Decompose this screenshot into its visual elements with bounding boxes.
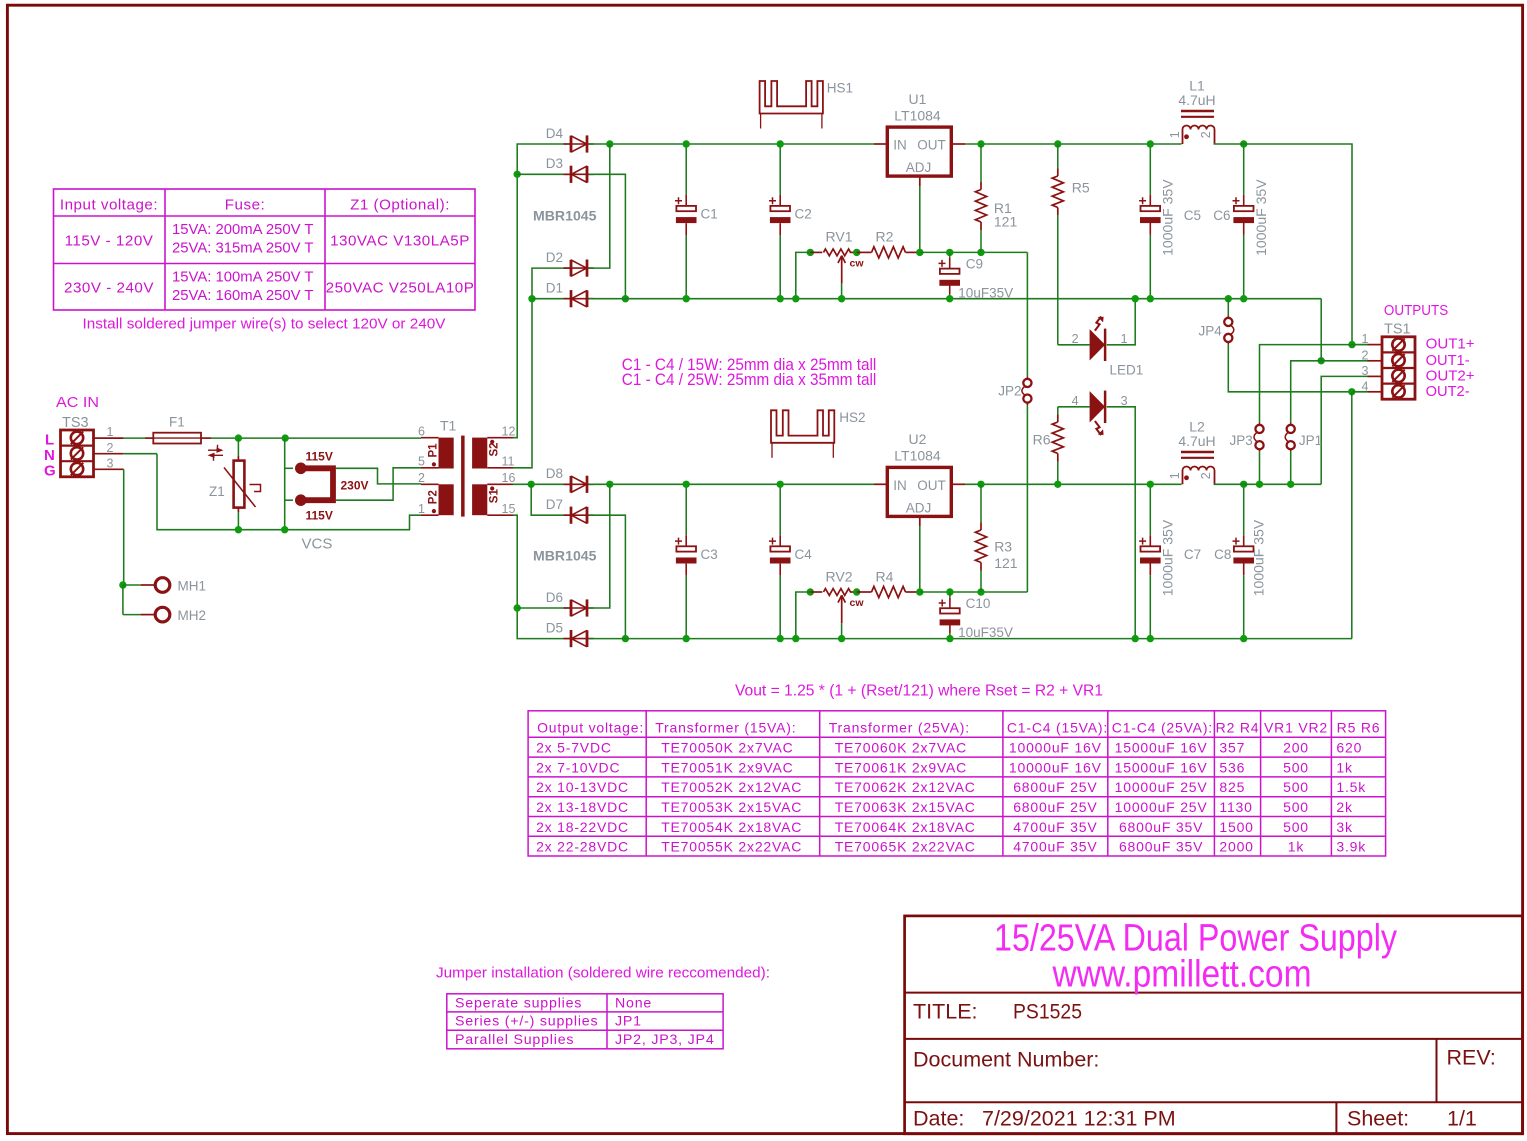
capacitor C10 xyxy=(940,608,960,613)
wire C7 bottom xyxy=(1149,575,1151,638)
junction C2 top rail xyxy=(777,140,784,147)
jumper JP1 xyxy=(1290,422,1292,425)
svg-text:VCS: VCS xyxy=(302,536,333,553)
svg-text:www.pmillett.com: www.pmillett.com xyxy=(1052,954,1312,996)
svg-text:3: 3 xyxy=(1121,394,1128,408)
capacitor C4 xyxy=(770,546,790,551)
svg-text:TE70065K 2x22VAC: TE70065K 2x22VAC xyxy=(835,839,976,855)
svg-text:D7: D7 xyxy=(546,497,563,512)
svg-text:Document Number:: Document Number: xyxy=(913,1048,1099,1072)
svg-text:2: 2 xyxy=(1199,131,1213,138)
wire R5 to LED1 xyxy=(1057,215,1059,345)
wire VCS column xyxy=(284,438,286,530)
svg-text:Transformer (15VA):: Transformer (15VA): xyxy=(655,719,796,735)
svg-text:OUT1+: OUT1+ xyxy=(1426,337,1475,353)
svg-text:C9: C9 xyxy=(966,256,983,271)
svg-text:G: G xyxy=(44,463,56,480)
junction wiper rail lower xyxy=(838,635,845,642)
wire to D7 xyxy=(531,484,570,515)
svg-text:10000uF 16V: 10000uF 16V xyxy=(1009,759,1102,775)
capacitor C1 xyxy=(676,206,696,211)
svg-text:S1: S1 xyxy=(489,489,501,504)
junction MH1 xyxy=(119,581,126,588)
wire U1 ADJ down xyxy=(919,186,921,252)
svg-text:Vout = 1.25 * (1 + (Rset/121): Vout = 1.25 * (1 + (Rset/121) where Rset… xyxy=(735,683,1103,700)
wire C3 bottom xyxy=(685,576,687,639)
svg-text:C1-C4 (25VA):: C1-C4 (25VA): xyxy=(1112,719,1213,735)
svg-text:2: 2 xyxy=(418,471,425,485)
svg-text:1: 1 xyxy=(1168,131,1182,138)
RV2 wiper arrow xyxy=(838,595,845,623)
LED LED2 xyxy=(1090,391,1106,422)
wire JP2 bottom to lower ADJ node xyxy=(1026,405,1028,592)
svg-text:5: 5 xyxy=(418,455,425,469)
wire N right xyxy=(124,453,157,455)
svg-text:JP2: JP2 xyxy=(998,383,1021,398)
mounting hole MH1 xyxy=(123,584,141,586)
svg-text:4700uF 35V: 4700uF 35V xyxy=(1013,839,1097,855)
svg-text:TE70055K 2x22VAC: TE70055K 2x22VAC xyxy=(661,839,802,855)
svg-text:12: 12 xyxy=(502,425,516,439)
wire JP4 bottom to OUT2- xyxy=(1228,344,1352,391)
svg-text:121: 121 xyxy=(994,555,1018,571)
regulator U1 LT1084 xyxy=(887,127,951,176)
wire LED1 cathode to rail xyxy=(1107,299,1135,345)
svg-text:LED1: LED1 xyxy=(1110,363,1144,378)
svg-text:15000uF 16V: 15000uF 16V xyxy=(1115,740,1208,756)
diode D2 xyxy=(564,267,594,269)
wire LED2 cathode to lower rail xyxy=(1107,407,1135,639)
wire fuse to T1 pin 6 xyxy=(211,437,421,439)
svg-text:500: 500 xyxy=(1283,759,1309,775)
svg-text:TE70061K 2x9VAC: TE70061K 2x9VAC xyxy=(835,759,967,775)
info table: input voltage / fuse / Z1 xyxy=(54,189,476,310)
wire C2 top xyxy=(779,144,781,195)
junction C1 bottom rail xyxy=(683,295,690,302)
junction LED1 rail xyxy=(1132,295,1139,302)
svg-text:JP2, JP3, JP4: JP2, JP3, JP4 xyxy=(615,1032,715,1048)
svg-text:230V: 230V xyxy=(341,479,369,493)
svg-text:OUT: OUT xyxy=(917,138,946,153)
svg-text:11: 11 xyxy=(502,455,515,469)
junction C2 bottom rail xyxy=(777,295,784,302)
capacitor C9 xyxy=(949,252,951,258)
svg-text:15VA: 200mA 250V T: 15VA: 200mA 250V T xyxy=(172,221,314,238)
wire C4 bottom xyxy=(779,576,781,639)
svg-text:cw: cw xyxy=(850,258,865,270)
wire to D6 xyxy=(517,607,570,609)
junction R1 bottom xyxy=(977,249,984,256)
wire C1 top xyxy=(685,144,687,195)
svg-text:1000uF 35V: 1000uF 35V xyxy=(1254,179,1269,256)
svg-text:R4: R4 xyxy=(876,569,894,585)
svg-text:1k: 1k xyxy=(1336,759,1353,775)
svg-text:10000uF 25V: 10000uF 25V xyxy=(1115,799,1208,815)
diode D1 xyxy=(564,298,594,300)
wire D7 right down to D5 xyxy=(589,515,626,638)
junction C6 top xyxy=(1240,140,1247,147)
capacitor C7 xyxy=(1141,546,1161,551)
wire D3 right down to D1 xyxy=(589,174,626,298)
svg-text:P2: P2 xyxy=(428,490,440,504)
svg-text:536: 536 xyxy=(1219,759,1245,775)
wire OUT1- to JP1 top xyxy=(1291,361,1322,423)
heatsink HS1 xyxy=(760,81,823,114)
svg-text:2x 5-7VDC: 2x 5-7VDC xyxy=(536,740,612,756)
jumper JP4 xyxy=(1227,315,1229,318)
svg-text:C4: C4 xyxy=(795,547,813,562)
svg-text:3k: 3k xyxy=(1336,819,1353,835)
svg-text:LT1084: LT1084 xyxy=(894,107,941,123)
svg-text:D5: D5 xyxy=(546,620,563,635)
svg-text:C1: C1 xyxy=(701,207,718,222)
svg-text:4.7uH: 4.7uH xyxy=(1178,92,1215,108)
svg-text:Install soldered jumper wire(s: Install soldered jumper wire(s) to selec… xyxy=(83,316,447,333)
junction RV1 return xyxy=(792,295,799,302)
junction D5/D7 xyxy=(622,635,629,642)
svg-text:6: 6 xyxy=(418,425,425,439)
junction Z1 top xyxy=(235,434,242,441)
wire RV2 wiper to rail xyxy=(841,623,843,638)
svg-text:10000uF 16V: 10000uF 16V xyxy=(1009,740,1102,756)
svg-text:TE70060K 2x7VAC: TE70060K 2x7VAC xyxy=(835,740,967,756)
svg-text:825: 825 xyxy=(1219,779,1245,795)
svg-text:Transformer (25VA):: Transformer (25VA): xyxy=(829,719,970,735)
RV1 wiper arrow xyxy=(838,256,845,284)
svg-text:TE70062K 2x12VAC: TE70062K 2x12VAC xyxy=(835,779,976,795)
svg-text:JP4: JP4 xyxy=(1199,323,1223,338)
wire OUT2+ down to L2 rail xyxy=(1321,376,1367,484)
svg-text:C6: C6 xyxy=(1213,208,1230,223)
svg-text:C7: C7 xyxy=(1184,547,1201,562)
wire L2 out rail xyxy=(1214,483,1322,485)
svg-text:7/29/2021 12:31 PM: 7/29/2021 12:31 PM xyxy=(982,1107,1176,1131)
wire D6 right up to D8 xyxy=(589,484,610,608)
wire D2 right up to D4 xyxy=(589,144,610,268)
wire JP3 bottom xyxy=(1259,452,1261,485)
capacitor C6 xyxy=(1234,206,1254,211)
svg-text:1/1: 1/1 xyxy=(1447,1107,1477,1131)
svg-text:N: N xyxy=(44,447,55,464)
svg-text:230V - 240V: 230V - 240V xyxy=(64,280,154,297)
wire RV1 wiper to rail xyxy=(841,284,843,299)
svg-text:Parallel Supplies: Parallel Supplies xyxy=(455,1032,574,1048)
junction RV2 right xyxy=(853,588,860,595)
svg-text:Sheet:: Sheet: xyxy=(1347,1107,1409,1131)
svg-text:OUT2+: OUT2+ xyxy=(1426,368,1475,384)
svg-text:1: 1 xyxy=(107,425,114,439)
junction C3 top rail xyxy=(683,481,690,488)
svg-text:AC IN: AC IN xyxy=(56,394,99,411)
wire C6 top xyxy=(1243,144,1245,195)
svg-text:200: 200 xyxy=(1283,740,1309,756)
junction C5 bottom xyxy=(1147,295,1154,302)
svg-text:2: 2 xyxy=(107,441,114,455)
svg-text:MBR1045: MBR1045 xyxy=(533,208,597,224)
svg-text:3.9k: 3.9k xyxy=(1336,839,1366,855)
junction C8 bottom xyxy=(1240,635,1247,642)
svg-text:1500: 1500 xyxy=(1219,819,1253,835)
wire to D1 xyxy=(532,298,570,300)
lower ground rail xyxy=(589,638,1352,640)
junction C10 top xyxy=(946,588,953,595)
svg-text:MH1: MH1 xyxy=(178,579,207,594)
varistor Z1 xyxy=(237,438,239,456)
svg-text:500: 500 xyxy=(1283,779,1309,795)
svg-text:REV:: REV: xyxy=(1447,1046,1496,1070)
svg-text:1.5k: 1.5k xyxy=(1336,779,1366,795)
svg-text:IN: IN xyxy=(893,478,907,493)
svg-text:2: 2 xyxy=(1199,472,1213,479)
wire RV1 left to rail xyxy=(796,252,811,298)
svg-text:RV2: RV2 xyxy=(826,569,853,585)
svg-text:D3: D3 xyxy=(546,156,563,171)
svg-text:RV1: RV1 xyxy=(826,228,853,244)
wire D8 to U2 IN xyxy=(589,483,874,485)
svg-text:4700uF 35V: 4700uF 35V xyxy=(1013,819,1097,835)
svg-text:R2: R2 xyxy=(876,228,894,244)
jumper JP2 xyxy=(1026,376,1028,379)
svg-text:OUTPUTS: OUTPUTS xyxy=(1384,303,1448,319)
heatsink HS2 xyxy=(771,410,834,443)
svg-text:1130: 1130 xyxy=(1219,799,1252,815)
wire C8 top xyxy=(1243,484,1245,535)
svg-text:TE70063K 2x15VAC: TE70063K 2x15VAC xyxy=(835,799,976,815)
svg-text:3: 3 xyxy=(1362,364,1369,378)
svg-text:R2 R4: R2 R4 xyxy=(1216,719,1260,735)
svg-text:10000uF 25V: 10000uF 25V xyxy=(1115,779,1208,795)
svg-text:cw: cw xyxy=(850,597,865,609)
wire T1 pin16 to D8 xyxy=(513,483,570,485)
junction R1 top xyxy=(977,140,984,147)
svg-text:6800uF 25V: 6800uF 25V xyxy=(1013,799,1097,815)
junction C4 bottom rail xyxy=(777,635,784,642)
wire T1 pin11 up to D2 xyxy=(513,268,570,468)
junction OUT2- node xyxy=(1348,388,1355,395)
svg-text:4.7uH: 4.7uH xyxy=(1178,433,1215,449)
svg-text:D2: D2 xyxy=(546,250,563,265)
svg-text:None: None xyxy=(615,995,652,1011)
capacitor C10 xyxy=(949,592,951,598)
wire ADJ row lower xyxy=(920,591,1028,593)
svg-text:121: 121 xyxy=(994,214,1018,230)
wire C6 bottom xyxy=(1243,235,1245,299)
table: output voltage options xyxy=(528,711,1386,856)
wire jumper bottom to T1 pin 5 xyxy=(336,468,421,500)
svg-text:ADJ: ADJ xyxy=(906,500,932,515)
svg-text:OUT1-: OUT1- xyxy=(1426,353,1470,369)
svg-text:250VAC V250LA10P: 250VAC V250LA10P xyxy=(326,280,475,297)
title block xyxy=(905,916,1523,1134)
wire N down to bottom rail to T1 pin 1 xyxy=(157,454,421,530)
svg-text:OUT2-: OUT2- xyxy=(1426,384,1470,400)
svg-text:16: 16 xyxy=(502,471,516,485)
wire jumper top to T1 pin 2 xyxy=(336,468,421,484)
diode D5 xyxy=(564,638,594,640)
svg-text:D1: D1 xyxy=(546,281,563,296)
svg-text:T1: T1 xyxy=(440,418,457,434)
wire C1 bottom xyxy=(685,235,687,298)
svg-text:2: 2 xyxy=(1072,332,1079,346)
wire C5 bottom xyxy=(1149,235,1151,299)
wire C5 top xyxy=(1149,144,1151,195)
terminal block TS3 xyxy=(61,430,94,477)
svg-text:Date:: Date: xyxy=(913,1107,964,1131)
svg-text:4: 4 xyxy=(1362,380,1369,394)
junction D6 left xyxy=(514,604,521,611)
svg-text:OUT: OUT xyxy=(917,478,946,493)
svg-text:25VA: 160mA 250V T: 25VA: 160mA 250V T xyxy=(172,287,314,304)
svg-text:TE70051K 2x9VAC: TE70051K 2x9VAC xyxy=(661,759,793,775)
junction C7 top xyxy=(1147,481,1154,488)
capacitor C9 xyxy=(940,269,960,274)
wire U1 OUT rail xyxy=(965,143,1182,145)
svg-text:115V: 115V xyxy=(306,509,333,523)
wire U2 ADJ down xyxy=(919,526,921,592)
wire L to fuse xyxy=(124,437,145,439)
junction D3 left xyxy=(514,171,521,178)
junction OUT1- node xyxy=(1318,357,1325,364)
svg-text:LT1084: LT1084 xyxy=(894,448,941,464)
svg-text:D4: D4 xyxy=(546,126,564,141)
svg-text:130VAC V130LA5P: 130VAC V130LA5P xyxy=(330,233,470,250)
wire C4 top xyxy=(779,484,781,535)
svg-text:TE70053K 2x15VAC: TE70053K 2x15VAC xyxy=(661,799,802,815)
wire OUT2- down to lower rail xyxy=(1351,392,1353,639)
svg-text:2x 18-22VDC: 2x 18-22VDC xyxy=(536,819,629,835)
junction D1 left xyxy=(528,295,535,302)
junction RV2 left xyxy=(807,588,814,595)
svg-text:P1: P1 xyxy=(428,443,440,458)
junction C10 bottom xyxy=(946,635,953,642)
svg-text:D8: D8 xyxy=(546,466,563,481)
junction LED2 rail xyxy=(1132,635,1139,642)
junction JP4 top xyxy=(1225,295,1232,302)
svg-text:10uF35V: 10uF35V xyxy=(958,625,1013,640)
svg-text:MBR1045: MBR1045 xyxy=(533,548,597,564)
svg-text:TE70054K 2x18VAC: TE70054K 2x18VAC xyxy=(661,819,802,835)
junction C7 bottom xyxy=(1147,635,1154,642)
mounting hole MH2 xyxy=(123,614,141,616)
svg-text:4: 4 xyxy=(1072,394,1079,408)
svg-text:U1: U1 xyxy=(909,91,927,107)
wire T1 pin12 up to D4 xyxy=(513,144,570,438)
regulator U2 LT1084 xyxy=(887,467,951,516)
wire to MH2 xyxy=(122,585,124,615)
svg-text:Jumper installation (soldered: Jumper installation (soldered wire recco… xyxy=(436,966,770,982)
svg-text:L: L xyxy=(45,431,54,448)
junction C1 top rail xyxy=(683,140,690,147)
svg-text:1: 1 xyxy=(1121,332,1128,346)
junction D4/D2 xyxy=(606,140,613,147)
Z1 clearance arrows xyxy=(208,445,218,450)
wire JP1 bottom xyxy=(1290,452,1292,485)
junction VCS bottom xyxy=(281,526,288,533)
svg-text:2x 22-28VDC: 2x 22-28VDC xyxy=(536,839,629,855)
svg-text:500: 500 xyxy=(1283,819,1309,835)
diode D3 xyxy=(564,173,594,175)
svg-text:6800uF 35V: 6800uF 35V xyxy=(1119,819,1203,835)
svg-text:C2: C2 xyxy=(795,207,812,222)
T1 pin stubs xyxy=(421,438,513,516)
TS3 pin stubs xyxy=(94,438,124,469)
svg-text:2: 2 xyxy=(1362,348,1369,362)
capacitor C3 xyxy=(676,546,696,551)
svg-text:2000: 2000 xyxy=(1219,839,1253,855)
svg-text:R3: R3 xyxy=(994,538,1012,554)
svg-text:C3: C3 xyxy=(701,547,718,562)
svg-text:S2: S2 xyxy=(489,442,501,456)
svg-text:15000uF 16V: 15000uF 16V xyxy=(1115,759,1208,775)
junction JP1 rail xyxy=(1287,481,1294,488)
svg-text:C8: C8 xyxy=(1214,547,1231,562)
svg-text:C5: C5 xyxy=(1184,208,1201,223)
svg-text:Fuse:: Fuse: xyxy=(225,197,265,214)
wire RV2 left to rail xyxy=(796,592,811,639)
wire U2 OUT rail xyxy=(965,483,1182,485)
junction C8 top xyxy=(1240,481,1247,488)
svg-text:TITLE:: TITLE: xyxy=(913,1000,978,1024)
junction R5 top xyxy=(1054,140,1061,147)
wire G down xyxy=(123,469,125,585)
svg-text:25VA: 315mA 250V T: 25VA: 315mA 250V T xyxy=(172,240,314,257)
svg-text:R6: R6 xyxy=(1033,432,1051,448)
svg-text:Seperate supplies: Seperate supplies xyxy=(455,995,582,1011)
junction C6 bottom xyxy=(1240,295,1247,302)
svg-text:Output voltage:: Output voltage: xyxy=(537,719,644,735)
junction OUT1+ node xyxy=(1348,341,1355,348)
capacitor C5 xyxy=(1141,206,1161,211)
svg-text:1000uF 35V: 1000uF 35V xyxy=(1161,179,1176,256)
svg-text:R5: R5 xyxy=(1072,180,1090,196)
svg-text:F1: F1 xyxy=(169,414,185,429)
wire C2 bottom xyxy=(779,235,781,298)
wire D4 to U1 IN xyxy=(589,143,874,145)
svg-text:TE70050K 2x7VAC: TE70050K 2x7VAC xyxy=(661,740,793,756)
svg-text:1: 1 xyxy=(1168,472,1182,479)
svg-text:6800uF 25V: 6800uF 25V xyxy=(1013,779,1097,795)
terminal block TS1 xyxy=(1382,337,1415,399)
junction ADJ node lower xyxy=(916,588,923,595)
wire T1 pin15 down to D5 xyxy=(513,515,570,638)
junction ADJ node xyxy=(916,249,923,256)
wire L1 out to OUT1+ xyxy=(1214,144,1353,345)
junction C3 bottom rail xyxy=(683,635,690,642)
wire LED1 anode xyxy=(1058,344,1090,346)
svg-text:C1-C4 (15VA):: C1-C4 (15VA): xyxy=(1007,719,1108,735)
svg-text:1000uF 35V: 1000uF 35V xyxy=(1161,520,1176,597)
svg-text:U2: U2 xyxy=(909,431,927,447)
svg-text:C1 - C4 / 25W: 25mm dia x 35mm: C1 - C4 / 25W: 25mm dia x 35mm tall xyxy=(622,371,877,389)
junction RV1 right xyxy=(853,249,860,256)
jumper JP3 xyxy=(1259,422,1261,425)
svg-text:IN: IN xyxy=(893,138,907,153)
svg-text:1: 1 xyxy=(418,502,425,516)
junction wiper rail xyxy=(838,295,845,302)
wire OUT1+ to JP3 top xyxy=(1260,345,1353,423)
svg-text:C10: C10 xyxy=(966,596,991,611)
junction R6 bottom xyxy=(1054,481,1061,488)
junction VCS column top xyxy=(282,434,289,441)
junction R3 top xyxy=(977,481,984,488)
svg-text:TE70064K 2x18VAC: TE70064K 2x18VAC xyxy=(835,819,976,835)
junction Z1 bottom xyxy=(235,526,242,533)
wire JP4 top xyxy=(1227,299,1229,316)
junction RV2 return xyxy=(792,635,799,642)
svg-text:6800uF 35V: 6800uF 35V xyxy=(1119,839,1203,855)
junction C9 top xyxy=(946,249,953,256)
svg-text:ADJ: ADJ xyxy=(906,160,932,175)
